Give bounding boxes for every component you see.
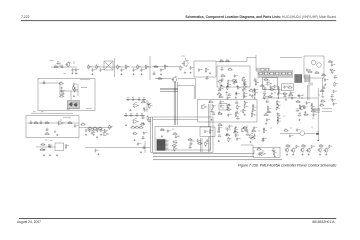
capacitor C103 <box>71 68 76 72</box>
wire <box>31 112 73 114</box>
resistor R156 <box>244 80 248 85</box>
shield box SH101 <box>194 61 216 77</box>
capacitor C144 <box>29 121 33 124</box>
capacitor C127 <box>42 81 46 84</box>
ground <box>140 151 142 153</box>
resistor R120 <box>255 81 259 86</box>
capacitor C159 <box>142 146 146 149</box>
ground <box>218 111 220 113</box>
ground <box>252 104 254 106</box>
svg-text:Figure 7-156. PMLF4G05A Contro: Figure 7-156. PMLF4G05A Controller Power… <box>238 164 337 168</box>
resistor R200 <box>311 110 316 112</box>
shield box SH102 <box>217 66 250 87</box>
svg-text:August 24, 2007: August 24, 2007 <box>17 220 41 224</box>
capacitor C136 <box>147 102 152 106</box>
ground <box>226 133 228 135</box>
resistor R163 <box>228 104 232 109</box>
resistor R314 (on panel) <box>281 72 285 75</box>
capacitor C215 <box>333 90 338 94</box>
ground <box>56 134 58 136</box>
resistor R136 <box>44 122 49 124</box>
capacitor C108 <box>132 68 137 72</box>
transistor Q105 <box>306 148 311 153</box>
capacitor C183 <box>236 117 240 120</box>
capacitor C132 <box>126 98 130 101</box>
capacitor C164 <box>218 88 222 91</box>
resistor R111 <box>205 67 209 72</box>
resistor R133 <box>147 116 151 121</box>
resistor R144 <box>130 126 135 128</box>
resistor R188 <box>268 95 273 97</box>
resistor R126 <box>59 82 64 84</box>
resistor R160 <box>254 91 258 96</box>
svg-text:Schematics, Component Location: Schematics, Component Location Diagrams,… <box>185 15 336 19</box>
capacitor C198 <box>263 87 267 90</box>
ground <box>100 134 102 136</box>
resistor R179 <box>251 130 256 132</box>
capacitor C117 <box>233 81 238 85</box>
bus wire 6 (horizontal) <box>160 90 178 92</box>
label text mark <box>290 127 292 129</box>
transistor Q102 <box>284 147 289 152</box>
bus line 3 (horizontal) <box>153 159 282 161</box>
resistor R148 <box>40 143 45 145</box>
ground <box>330 69 332 71</box>
ground <box>298 119 300 121</box>
junction dot <box>301 97 302 98</box>
capacitor C225 <box>174 141 178 144</box>
capacitor C216 <box>330 95 334 98</box>
ground <box>319 153 321 155</box>
resistor R162 <box>212 104 216 109</box>
label text mark <box>192 140 194 142</box>
wire (vertical) <box>200 138 202 152</box>
capacitor C140 <box>135 114 139 117</box>
wire <box>105 62 113 70</box>
capacitor C153 <box>104 129 109 133</box>
resistor R175 <box>233 131 238 133</box>
wire <box>51 66 77 68</box>
capacitor C197 <box>270 85 275 89</box>
wire <box>105 62 113 70</box>
label text mark <box>268 111 270 113</box>
panel top components <box>261 68 269 71</box>
ground <box>278 86 280 88</box>
ground <box>189 72 191 74</box>
capacitor C176 <box>220 104 225 108</box>
resistor R170 <box>235 112 239 117</box>
resistor R103 <box>96 64 100 69</box>
ground <box>143 107 145 109</box>
capacitor C193 <box>262 137 267 141</box>
resistor R167 <box>237 105 241 110</box>
capacitor C173 <box>253 88 258 92</box>
resistor R115 <box>231 79 236 81</box>
capacitor C218 <box>333 102 338 106</box>
ground <box>184 72 186 74</box>
wire <box>185 58 187 60</box>
label text mark <box>172 128 174 130</box>
resistor R121 <box>321 74 326 76</box>
capacitor C112 <box>189 66 194 70</box>
resistor R102 <box>88 64 92 69</box>
interface outer box <box>151 117 213 152</box>
bus band A (shaded) <box>256 68 270 72</box>
wire <box>216 60 247 62</box>
ground <box>228 104 230 106</box>
label text mark <box>311 126 313 128</box>
capacitor C226 <box>167 129 172 133</box>
header rule <box>21 19 336 22</box>
capacitor C104 <box>75 68 80 72</box>
wire (vertical) <box>246 57 248 61</box>
wire (vertical) <box>195 79 197 99</box>
net label mark <box>33 111 36 113</box>
op-amp U103 <box>132 119 138 124</box>
label text mark <box>274 92 276 94</box>
wire (vertical) <box>144 141 146 153</box>
capacitor C152 <box>100 129 105 133</box>
wire <box>36 146 55 148</box>
resistor R174 <box>235 127 239 132</box>
ground <box>133 139 135 141</box>
wire <box>124 115 145 117</box>
capacitor C130 <box>61 92 65 95</box>
resistor R143 <box>97 127 102 129</box>
label text mark <box>225 127 227 129</box>
op-amp U110 <box>300 105 306 110</box>
resistor R169 <box>243 109 247 114</box>
block label text <box>80 79 90 81</box>
capacitor C219 <box>289 134 294 138</box>
capacitor C223 <box>328 145 333 149</box>
resistor R180 <box>263 128 267 133</box>
capacitor C139 <box>129 114 133 117</box>
capacitor C150 <box>93 129 98 133</box>
resistor R199 <box>311 104 315 109</box>
resistor R198 <box>299 104 303 109</box>
ground <box>56 154 58 156</box>
ground <box>250 141 252 143</box>
resistor R132 <box>149 104 153 109</box>
ground <box>61 87 63 89</box>
transistor Q201 <box>171 76 177 82</box>
capacitor C165 <box>228 93 232 96</box>
resistor R195 <box>282 92 287 94</box>
resistor R110 <box>180 65 184 70</box>
capacitor C120 <box>333 76 337 79</box>
resistor R210 <box>172 144 177 146</box>
IC U301 <box>219 104 227 111</box>
shaded panel B <box>258 70 294 78</box>
capacitor C155 <box>94 149 99 153</box>
capacitor C213 <box>298 114 302 117</box>
ground <box>91 73 93 75</box>
detector box <box>253 147 280 157</box>
resistor R140 <box>109 125 113 130</box>
capacitor C220 <box>296 128 301 132</box>
block box BB2 <box>282 84 294 91</box>
capacitor C163 <box>219 87 224 91</box>
capacitor C126 <box>331 63 336 67</box>
ground <box>235 96 237 98</box>
capacitor C151 <box>96 129 101 133</box>
capacitor C211 <box>303 106 308 110</box>
capacitor C156 <box>143 131 148 135</box>
label mark <box>86 108 92 110</box>
ground <box>324 83 326 85</box>
resistor R311 (on panel) <box>264 72 268 75</box>
capacitor C160 <box>48 144 53 148</box>
resistor R147 <box>132 132 137 134</box>
resistor R206 <box>285 145 290 147</box>
capacitor C178 <box>212 112 216 115</box>
resistor R107 <box>145 64 149 69</box>
resistor R109 <box>164 64 168 69</box>
wire <box>178 78 196 80</box>
capacitor C192 <box>246 133 250 136</box>
net label mark <box>45 139 48 141</box>
wire (vertical) <box>208 104 210 127</box>
resistor R159 <box>249 89 254 91</box>
resistor R191 <box>266 111 271 113</box>
transistor Q107 <box>324 148 329 153</box>
ground <box>308 153 310 155</box>
ground <box>71 72 73 74</box>
capacitor C113 <box>198 68 203 72</box>
wire <box>131 66 151 68</box>
wire <box>60 90 78 92</box>
label text mark <box>240 110 242 112</box>
resistor R205 <box>283 129 288 131</box>
op-amp U101 <box>266 81 272 85</box>
ground <box>244 114 246 116</box>
wire (vertical) <box>255 55 257 71</box>
resistor R112 <box>219 60 224 62</box>
bus wire 3 (vertical) <box>176 82 178 125</box>
resistor R181 <box>250 137 255 139</box>
connector pin leads <box>165 141 169 150</box>
resistor R197 <box>296 100 301 102</box>
ground <box>132 73 134 75</box>
highlight box (shaded) <box>67 101 79 109</box>
capacitor C221 <box>295 145 300 149</box>
label text mark <box>178 135 180 137</box>
ground <box>235 92 237 94</box>
resistor R173 <box>219 126 223 131</box>
resistor R146 <box>138 126 143 128</box>
wire <box>27 122 79 124</box>
wire (vertical) <box>59 83 61 95</box>
wire (vertical) <box>208 137 210 153</box>
resistor R313 (on panel) <box>275 72 279 75</box>
ground <box>276 112 278 114</box>
resistor R149 <box>40 148 45 150</box>
capacitor C227 <box>204 130 209 134</box>
capacitor C171 <box>235 92 240 96</box>
ground <box>160 73 162 75</box>
capacitor C224 <box>175 135 180 139</box>
junction dot <box>318 140 319 141</box>
resistor R194 <box>277 119 281 124</box>
capacitor C147 <box>45 128 49 131</box>
wire <box>153 119 198 121</box>
net label mark <box>41 111 44 113</box>
label text mark <box>252 91 254 93</box>
op-amp U108 <box>249 134 255 139</box>
bus line 2 (horizontal) <box>153 155 254 157</box>
capacitor C222 <box>311 145 316 149</box>
ground <box>73 95 75 97</box>
resistor R135 <box>33 122 38 124</box>
resistor R106 <box>137 64 141 69</box>
ground <box>285 99 287 101</box>
resistor R129 <box>59 95 64 97</box>
wire (vertical) <box>193 85 195 99</box>
capacitor C114 <box>234 74 239 78</box>
test point line <box>312 111 320 113</box>
ground <box>226 91 228 93</box>
ground <box>96 136 98 138</box>
wire (vertical) <box>73 61 75 64</box>
svg-text:6816532H01-A: 6816532H01-A <box>312 220 335 224</box>
ground <box>125 124 127 126</box>
wire (vertical) <box>114 58 116 77</box>
resistor R207 <box>301 145 306 147</box>
resistor R117 <box>263 78 268 80</box>
bus wire 1 (vertical) <box>173 82 175 125</box>
resistor R153 <box>227 85 231 90</box>
interface inner box <box>155 127 211 151</box>
resistor R131 <box>141 101 146 103</box>
wire (vertical) <box>253 150 255 154</box>
resistor R151 <box>217 80 222 82</box>
net label VCC5 <box>50 60 54 62</box>
wire (vertical) <box>77 84 79 96</box>
capacitor C194 <box>261 139 265 142</box>
IC U403 pin column <box>305 75 310 83</box>
wire (vertical) <box>277 88 279 98</box>
resistor R166 <box>244 101 248 106</box>
label text mark <box>206 139 208 141</box>
resistor R138 <box>45 133 50 135</box>
op-amp U104 <box>58 120 65 125</box>
net name text marks <box>322 110 332 112</box>
ground <box>210 119 212 121</box>
capacitor C196 <box>272 149 276 152</box>
resistor R161 <box>208 101 213 103</box>
resistor R108 <box>153 65 158 67</box>
resistor R145 <box>134 126 139 128</box>
resistor R134 <box>140 123 145 125</box>
label text mark <box>244 96 246 98</box>
resistor R157 <box>244 85 248 90</box>
capacitor C105 <box>91 68 96 72</box>
resistor R213 <box>209 129 213 134</box>
resistor R127 <box>73 85 77 90</box>
resistor R196 <box>288 94 293 96</box>
capacitor C142 <box>141 116 145 119</box>
resistor R182 <box>256 148 261 150</box>
ground <box>322 95 324 97</box>
ground <box>274 155 276 157</box>
capacitor C203 <box>276 107 281 111</box>
ground <box>161 135 163 137</box>
transistor Q104 <box>300 147 305 152</box>
resistor R201 <box>303 113 308 115</box>
capacitor C188 <box>235 134 240 138</box>
capacitor C208 <box>298 94 303 98</box>
wire <box>152 66 168 68</box>
transistor Q103 <box>182 60 189 67</box>
transistor Q405 <box>317 63 321 67</box>
wire <box>241 144 253 146</box>
resistor R203 <box>320 100 325 102</box>
ground <box>254 89 256 91</box>
capacitor C141 <box>140 114 144 117</box>
resistor R125 <box>332 69 336 74</box>
capacitor C154 <box>91 131 96 135</box>
pin stubs <box>309 83 312 86</box>
ground <box>43 149 45 151</box>
resistor R216 <box>205 141 209 146</box>
net label mark <box>50 140 53 142</box>
resistor R137 <box>67 122 72 124</box>
wire <box>155 78 172 80</box>
resistor R211 <box>174 146 178 151</box>
resistor R118 <box>334 82 338 87</box>
resistor R141 <box>87 127 92 129</box>
capacitor C124 <box>322 86 326 89</box>
ground <box>249 94 251 96</box>
capacitor C204 <box>277 114 281 117</box>
test point line <box>312 110 320 112</box>
capacitor C128 <box>73 83 78 87</box>
wire (vertical) <box>308 85 310 100</box>
wire (vertical) <box>146 100 148 112</box>
wire <box>262 97 318 99</box>
capacitor C190 <box>253 126 258 130</box>
comparator U410 <box>300 131 305 136</box>
resistor R165 <box>218 112 223 114</box>
capacitor C185 <box>226 128 231 132</box>
ground <box>243 76 245 78</box>
resistor R164 <box>226 108 231 110</box>
capacitor C175 <box>220 100 225 104</box>
audio PA block box <box>38 79 95 111</box>
wire (vertical) <box>70 91 72 100</box>
ground <box>93 134 95 136</box>
wire <box>177 84 194 86</box>
wire <box>40 82 61 84</box>
label text mark <box>254 114 256 116</box>
label text mark <box>302 94 304 96</box>
capacitor C214 <box>312 113 317 117</box>
capacitor C167 <box>234 80 238 83</box>
ground <box>209 72 211 74</box>
wire (vertical) <box>322 78 324 95</box>
resistor R178 <box>243 126 248 128</box>
capacitor C123 <box>324 78 329 82</box>
resistor R104 <box>117 64 121 69</box>
capacitor C158 <box>137 142 142 146</box>
capacitor C125 <box>306 68 311 72</box>
wire <box>79 126 112 128</box>
wire <box>81 87 87 89</box>
label text mark <box>318 94 320 96</box>
bus line 1 (horizontal) <box>153 153 254 155</box>
capacitor C201 <box>266 100 270 103</box>
